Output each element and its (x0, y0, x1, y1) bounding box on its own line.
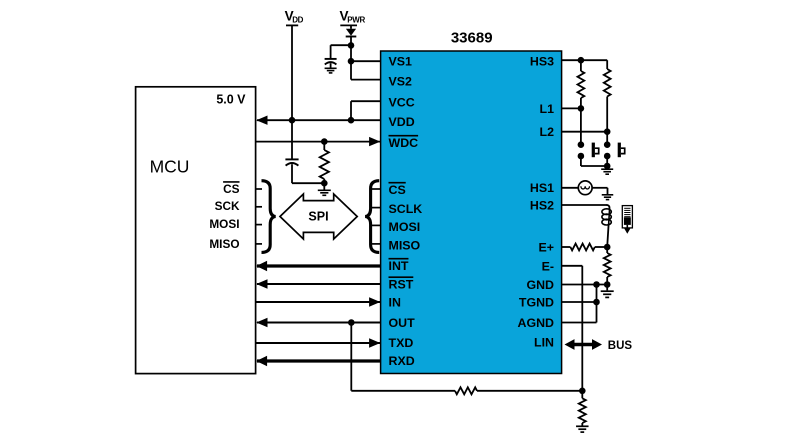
svg-text:MOSI: MOSI (209, 217, 239, 231)
svg-text:WDC: WDC (389, 136, 419, 150)
svg-text:VCC: VCC (389, 95, 415, 109)
svg-text:DD: DD (292, 15, 303, 24)
svg-text:E-: E- (542, 259, 554, 273)
svg-text:E+: E+ (538, 240, 554, 254)
svg-text:CS: CS (389, 183, 406, 197)
svg-text:HS2: HS2 (530, 198, 554, 212)
svg-text:AGND: AGND (518, 316, 555, 330)
svg-text:VS2: VS2 (389, 74, 413, 88)
svg-text:OUT: OUT (389, 316, 416, 330)
svg-text:VS1: VS1 (389, 55, 413, 69)
svg-text:HS3: HS3 (530, 55, 554, 69)
svg-text:SCLK: SCLK (389, 202, 423, 216)
svg-text:33689: 33689 (451, 30, 493, 47)
svg-text:BUS: BUS (608, 340, 633, 352)
svg-text:PWR: PWR (347, 15, 365, 24)
svg-text:TXD: TXD (389, 336, 414, 350)
svg-text:IN: IN (389, 295, 401, 309)
svg-text:L1: L1 (540, 102, 555, 116)
svg-text:L2: L2 (540, 125, 555, 139)
svg-text:MCU: MCU (150, 157, 190, 177)
svg-text:5.0 V: 5.0 V (216, 92, 246, 106)
svg-text:SCK: SCK (215, 199, 240, 213)
svg-text:MOSI: MOSI (389, 220, 421, 234)
svg-text:CS: CS (223, 182, 240, 196)
svg-text:TGND: TGND (519, 295, 554, 309)
svg-text:MISO: MISO (389, 238, 421, 252)
svg-text:INT: INT (389, 259, 409, 273)
svg-text:GND: GND (526, 278, 554, 292)
svg-text:VDD: VDD (389, 115, 415, 129)
svg-text:LIN: LIN (534, 336, 554, 350)
svg-text:MISO: MISO (209, 237, 239, 251)
svg-text:RST: RST (389, 277, 414, 291)
svg-text:SPI: SPI (308, 210, 328, 224)
svg-text:HS1: HS1 (530, 181, 554, 195)
svg-text:RXD: RXD (389, 354, 415, 368)
